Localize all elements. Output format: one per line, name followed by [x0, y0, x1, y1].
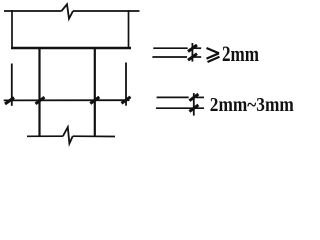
web bottom line right segment [73, 135, 115, 137]
callout1 tick at bottom line [188, 54, 197, 61]
flange left edge [11, 10, 13, 48]
greater-or-equal sign upper stroke [207, 48, 220, 53]
web left edge [38, 48, 40, 137]
callout2 vertical dimension line [193, 93, 195, 116]
web bottom line left segment [27, 135, 63, 137]
callout2 bottom gap line [156, 107, 204, 109]
callout2 tick at top line [189, 94, 198, 101]
flange top break symbol [62, 4, 74, 18]
tick at left extension [5, 98, 14, 105]
flange top edge left segment [4, 10, 62, 12]
greater-or-equal sign underline [208, 57, 220, 62]
flange top edge right segment [73, 10, 140, 12]
tick at web left edge [36, 97, 45, 104]
right extension line [125, 63, 127, 106]
flange right edge [128, 10, 130, 48]
callout1 bottom gap line right segment [192, 56, 201, 58]
callout2 top gap line left segment [157, 96, 189, 98]
horizontal dimension line [4, 99, 130, 101]
callout2 tick at bottom line [189, 105, 198, 112]
svg-text:2mm: 2mm [222, 41, 259, 66]
callout1 tick at top line [188, 45, 197, 52]
callout1 top gap line left segment [153, 47, 187, 49]
svg-text:2mm~3mm: 2mm~3mm [210, 94, 294, 116]
callout1 bottom gap line left segment [152, 56, 187, 58]
left extension line [11, 64, 13, 106]
tick at right extension [122, 97, 131, 104]
flange bottom edge [11, 47, 131, 49]
callout1 top gap line right segment [192, 47, 201, 49]
callout1 vertical dimension line [191, 43, 193, 62]
web right edge [94, 48, 96, 137]
callout2 top gap line right segment [196, 96, 204, 98]
web bottom break symbol [63, 127, 73, 143]
greater-or-equal sign lower stroke [207, 53, 220, 58]
tick at web right edge [90, 97, 99, 104]
